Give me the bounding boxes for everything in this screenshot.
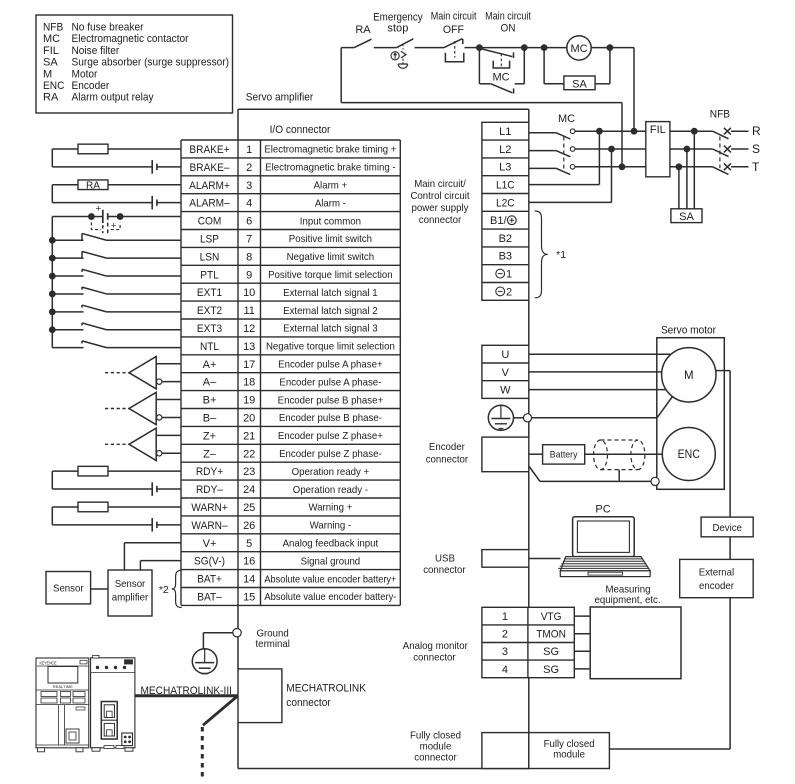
svg-text:Encoder pulse B phase-: Encoder pulse B phase- [279, 412, 383, 424]
svg-text:V+: V+ [203, 538, 217, 550]
svg-text:B–: B– [203, 412, 217, 424]
svg-text:External: External [699, 566, 734, 578]
wire L1C [529, 131, 600, 184]
pin row Z+ 21 [203, 430, 383, 442]
svg-text:+: + [96, 204, 102, 215]
svg-text:Absolute value encoder battery: Absolute value encoder battery+ [264, 573, 396, 585]
svg-text:Main circuit/: Main circuit/ [414, 178, 466, 190]
node bus EXT1 [49, 291, 56, 298]
svg-text:MC: MC [570, 43, 587, 55]
svg-text:connector: connector [426, 453, 469, 465]
svg-text:ALARM–: ALARM– [189, 198, 230, 210]
breaker NFB pole T [713, 160, 760, 175]
svg-text:WARN+: WARN+ [191, 502, 228, 514]
wire MC coil to node 4 [591, 47, 610, 49]
mechanical link MC contacts [563, 137, 565, 172]
terminal -2 label [496, 286, 512, 298]
wire RA to emergency stop [374, 47, 397, 49]
diode RA (alarm output) [152, 196, 181, 210]
svg-text:Electromagnetic brake timing +: Electromagnetic brake timing + [264, 144, 396, 156]
USB connector box [482, 550, 529, 568]
svg-text:LSN: LSN [200, 251, 220, 263]
svg-text:Encoder pulse Z phase-: Encoder pulse Z phase- [279, 448, 382, 460]
wire BRAKE return [52, 149, 151, 167]
pin row V+ 5 [203, 537, 379, 549]
svg-text:V: V [502, 367, 510, 379]
relay coil BRAKE [52, 144, 181, 154]
svg-text:1: 1 [506, 269, 512, 281]
device box [701, 517, 753, 537]
relay coil RA (alarm output) [52, 180, 181, 191]
wire SG(V-) [140, 561, 181, 570]
svg-text:Control circuit: Control circuit [410, 190, 469, 202]
svg-text:SA: SA [679, 211, 694, 223]
node bus EXT2 [49, 308, 56, 315]
sensor box [46, 572, 91, 604]
svg-text:ALARM+: ALARM+ [189, 180, 230, 192]
svg-text:L3: L3 [499, 162, 511, 174]
svg-text:No fuse breaker: No fuse breaker [72, 22, 144, 34]
svg-text:connector: connector [423, 564, 466, 576]
node COM right [117, 213, 124, 220]
wire SA drops [679, 131, 694, 209]
svg-text:*1: *1 [556, 249, 566, 261]
svg-text:3: 3 [502, 646, 508, 658]
svg-text:23: 23 [243, 466, 255, 478]
svg-text:B3: B3 [499, 251, 512, 263]
svg-text:Encoder pulse B phase+: Encoder pulse B phase+ [278, 394, 384, 406]
encoder connector box [482, 437, 529, 472]
svg-text:4: 4 [246, 198, 252, 210]
svg-text:ON: ON [501, 23, 516, 35]
encoder ENC [662, 428, 715, 481]
pushbutton Main circuit ON [479, 11, 530, 69]
terminal -1 label [496, 269, 512, 281]
pin row BRAKE– 2 [190, 162, 397, 174]
relay coil WARN [52, 502, 181, 512]
svg-text:Warning -: Warning - [310, 520, 352, 532]
pin row EXT2 11 [197, 305, 378, 317]
svg-text:Operation ready +: Operation ready + [292, 466, 370, 478]
node SA tap R [691, 128, 698, 135]
svg-text:MECHATROLINK: MECHATROLINK [286, 683, 366, 695]
wire phase U [529, 353, 671, 355]
svg-text:24: 24 [243, 484, 255, 496]
svg-text:External latch signal 1: External latch signal 1 [283, 287, 378, 299]
mechanical link NFB [719, 137, 721, 169]
node SA tap T [676, 163, 683, 170]
svg-text:Main circuit: Main circuit [431, 11, 477, 23]
svg-text:KEYENCE: KEYENCE [40, 660, 57, 665]
svg-text:EXT3: EXT3 [197, 323, 222, 335]
pushbutton Main circuit OFF [431, 11, 477, 62]
svg-text:SG: SG [543, 646, 559, 658]
line driver A phase [105, 357, 181, 389]
wire device to external encoder [729, 537, 731, 560]
switch LSN [52, 251, 181, 258]
svg-text:SG: SG [543, 664, 559, 676]
svg-text:5: 5 [246, 538, 252, 550]
shield ground terminal [651, 477, 659, 485]
svg-text:4: 4 [502, 664, 508, 676]
svg-text:External latch signal 2: External latch signal 2 [283, 305, 378, 317]
pin row B+ 19 [203, 394, 384, 406]
svg-text:External latch signal 3: External latch signal 3 [283, 323, 378, 335]
svg-text:BRAKE–: BRAKE– [190, 162, 231, 174]
svg-text:Electromagnetic brake timing -: Electromagnetic brake timing - [265, 162, 396, 174]
svg-text:M: M [43, 68, 52, 80]
node L2C tap [608, 146, 615, 153]
node control 1 [476, 44, 483, 51]
sensor amplifier box [108, 570, 152, 616]
svg-text:22: 22 [243, 448, 255, 460]
fully closed module connector box [482, 733, 529, 769]
svg-text:terminal: terminal [256, 638, 290, 650]
svg-text:14: 14 [243, 574, 255, 586]
svg-text:7: 7 [246, 233, 252, 245]
svg-text:Analog feedback input: Analog feedback input [283, 537, 379, 549]
svg-text:OFF: OFF [443, 24, 464, 36]
svg-text:L1C: L1C [496, 180, 515, 192]
svg-text:Input common: Input common [300, 215, 361, 227]
svg-text:REALTIME: REALTIME [53, 685, 74, 689]
wire sensor to amplifier [91, 588, 108, 590]
MECHATROLINK-III cable [135, 694, 238, 697]
wire encoder connector to battery [529, 453, 543, 455]
svg-text:encoder: encoder [699, 580, 734, 592]
MECHATROLINK cable continuation (dashed) [201, 727, 204, 780]
breaker NFB pole S [713, 142, 760, 157]
svg-text:SA: SA [572, 78, 587, 90]
wire input common bus [51, 217, 53, 348]
I/O connector pin table grid [181, 140, 400, 605]
svg-text:MC: MC [558, 113, 575, 125]
PC laptop icon [558, 517, 650, 577]
svg-text:8: 8 [246, 251, 252, 263]
svg-text:NTL: NTL [200, 341, 219, 353]
wire control to L1 phase [610, 48, 634, 132]
wire USB to PC [529, 558, 561, 560]
svg-text:Noise filter: Noise filter [72, 45, 120, 57]
svg-text:Sensor: Sensor [115, 578, 146, 590]
wire PE link [514, 417, 524, 419]
fully closed module box [529, 733, 610, 769]
svg-text:USB: USB [435, 552, 455, 564]
svg-text:17: 17 [243, 359, 255, 371]
pin row RDY– 24 [196, 484, 368, 496]
svg-text:FIL: FIL [43, 45, 59, 57]
svg-text:module: module [420, 741, 452, 753]
svg-text:A+: A+ [203, 359, 217, 371]
svg-text:Encoder: Encoder [72, 80, 110, 92]
svg-text:RDY–: RDY– [196, 484, 224, 496]
switch LSP [52, 233, 181, 240]
wire RA (alarm output) return [52, 185, 151, 203]
terminal B1/+ label [490, 215, 516, 227]
pin row A– 18 [203, 376, 382, 388]
svg-text:15: 15 [243, 591, 255, 603]
contactor main contact L3 [529, 165, 646, 175]
svg-text:Servo amplifier: Servo amplifier [246, 92, 314, 104]
svg-text:NFB: NFB [43, 22, 63, 34]
label main circuit connector [410, 178, 469, 226]
diode BRAKE [152, 160, 181, 174]
wire FIL to NFB S [670, 148, 713, 150]
svg-text:BAT+: BAT+ [197, 574, 222, 586]
svg-text:VTG: VTG [541, 611, 562, 623]
label Encoder connector [426, 441, 469, 465]
analog monitor connector table [482, 607, 574, 677]
svg-text:MC: MC [492, 72, 509, 84]
contactor coil MC [567, 36, 591, 60]
svg-text:equipment, etc.: equipment, etc. [594, 594, 660, 606]
wire FIL to NFB T [670, 166, 713, 168]
svg-text:Encoder: Encoder [429, 441, 465, 453]
wire COM [52, 216, 181, 218]
svg-text:Alarm +: Alarm + [314, 179, 348, 191]
svg-text:ENC: ENC [678, 449, 700, 461]
pin row ALARM+ 3 [189, 179, 347, 191]
svg-text:Encoder pulse Z phase+: Encoder pulse Z phase+ [278, 430, 383, 442]
svg-text:amplifier: amplifier [112, 592, 149, 604]
svg-text:FIL: FIL [650, 124, 666, 136]
svg-text:16: 16 [243, 556, 255, 568]
diode WARN [152, 518, 181, 532]
svg-text:Alarm output relay: Alarm output relay [72, 92, 155, 104]
MECHATROLINK connector box [238, 669, 282, 723]
svg-text:connector: connector [414, 752, 457, 764]
svg-text:Operation ready -: Operation ready - [293, 484, 369, 496]
contactor main contact L2 [529, 147, 646, 157]
pin row PTL 9 [200, 269, 393, 281]
switch EXT3 [52, 323, 181, 330]
svg-text:25: 25 [243, 502, 255, 514]
wire emergency stop to OFF [415, 47, 445, 49]
wire ground [203, 633, 232, 649]
svg-text:Sensor: Sensor [53, 582, 84, 594]
svg-text:stop: stop [387, 23, 408, 35]
wire motor ground [532, 397, 673, 418]
wire L2C [529, 149, 612, 202]
svg-text:9: 9 [246, 269, 252, 281]
switch EXT1 [52, 287, 181, 294]
pin row Z– 22 [203, 448, 382, 460]
svg-text:1: 1 [502, 611, 508, 623]
motor M [662, 348, 716, 402]
measuring equipment box [590, 607, 681, 679]
main circuit power connector block [482, 122, 529, 300]
switch PTL [52, 269, 181, 276]
svg-text:RA: RA [43, 92, 59, 104]
contactor main contact L1 [529, 129, 646, 139]
wire battery to ENC [585, 453, 663, 455]
wire WARN return [52, 507, 151, 525]
svg-text:6: 6 [246, 216, 252, 228]
servo motor frame [657, 338, 725, 490]
svg-text:Motor: Motor [72, 68, 98, 80]
svg-text:W: W [500, 385, 511, 397]
svg-text:10: 10 [243, 287, 255, 299]
svg-text:Z–: Z– [203, 448, 217, 460]
wire FIL to NFB R [670, 130, 713, 132]
svg-text:Surge absorber (surge suppress: Surge absorber (surge suppressor) [72, 57, 230, 69]
wire external encoder to fully closed module [609, 598, 730, 749]
wire control circuit left [341, 48, 622, 167]
svg-text:EXT1: EXT1 [197, 287, 222, 299]
svg-text:19: 19 [243, 395, 255, 407]
svg-text:18: 18 [243, 377, 255, 389]
svg-text:2: 2 [502, 629, 508, 641]
wire analog monitor 4 [574, 668, 590, 670]
node control 3 [541, 44, 548, 51]
brace *2 battery rows [159, 570, 182, 607]
svg-text:2: 2 [506, 286, 512, 298]
svg-text:RDY+: RDY+ [196, 466, 223, 478]
pin row LSP 7 [200, 233, 372, 245]
svg-text:RA: RA [86, 180, 100, 191]
svg-text:Electromagnetic contactor: Electromagnetic contactor [72, 33, 189, 45]
svg-text:Warning +: Warning + [308, 502, 352, 514]
ground terminal motor [523, 414, 531, 422]
svg-text:SA: SA [43, 57, 58, 69]
pin row RDY+ 23 [196, 466, 369, 478]
label fully closed module connector [410, 729, 461, 763]
motor power connector U V W [482, 345, 529, 398]
svg-text:SG(V-): SG(V-) [194, 556, 225, 568]
svg-text:PTL: PTL [200, 269, 219, 281]
pin row WARN– 26 [191, 520, 351, 532]
svg-text:WARN–: WARN– [191, 520, 228, 532]
svg-text:Positive limit switch: Positive limit switch [289, 233, 372, 245]
wire analog monitor 1 [574, 615, 590, 617]
wire motor to device [716, 370, 731, 372]
svg-text:B+: B+ [203, 395, 217, 407]
brace *1 regen terminals [535, 211, 566, 298]
svg-text:21: 21 [243, 430, 255, 442]
node L1C tap [596, 128, 603, 135]
svg-text:I/O connector: I/O connector [270, 124, 331, 136]
svg-text:Negative torque limit selectio: Negative torque limit selection [266, 341, 395, 353]
pin row B– 20 [203, 412, 383, 424]
pin row SG(V-) 16 [194, 555, 360, 567]
wire analog monitor 3 [574, 650, 590, 652]
svg-text:12: 12 [243, 323, 255, 335]
pin row COM 6 [198, 215, 361, 227]
svg-text:M: M [684, 370, 694, 382]
wire phase W [529, 389, 666, 391]
svg-text:R: R [752, 124, 761, 138]
svg-text:PC: PC [595, 503, 610, 515]
svg-text:Analog monitor: Analog monitor [403, 640, 468, 652]
svg-text:B1/: B1/ [490, 215, 507, 227]
label ground terminal [256, 627, 290, 650]
svg-text:L2: L2 [499, 144, 511, 156]
svg-text:BRAKE+: BRAKE+ [189, 144, 229, 156]
wire phase V [529, 371, 662, 373]
node control 4 [607, 44, 614, 51]
svg-text:Servo motor: Servo motor [661, 325, 716, 337]
line driver B phase [105, 392, 181, 424]
svg-text:Alarm -: Alarm - [315, 197, 347, 209]
wire analog monitor 2 [574, 633, 590, 635]
svg-text:RA: RA [355, 24, 371, 36]
label MECHATROLINK connector [286, 683, 366, 710]
svg-text:L1: L1 [499, 126, 511, 138]
svg-text:20: 20 [243, 412, 255, 424]
svg-text:connector: connector [419, 214, 462, 226]
relay coil RDY [52, 466, 181, 476]
svg-text:Positive torque limit selectio: Positive torque limit selection [268, 269, 393, 281]
shielded cable [594, 440, 645, 470]
svg-text:A–: A– [203, 377, 217, 389]
svg-text:MC: MC [43, 33, 60, 45]
svg-text:EXT2: EXT2 [197, 305, 222, 317]
line driver Z phase [105, 428, 181, 460]
node COM left [88, 213, 95, 220]
legend box [36, 15, 233, 113]
wire ON to MC coil [524, 47, 567, 49]
servo amplifier outline [238, 109, 529, 768]
node bus PTL [49, 273, 56, 280]
node control feed R [631, 128, 638, 135]
svg-text:connector: connector [286, 697, 331, 709]
svg-text:ENC: ENC [43, 80, 64, 92]
auxiliary contact MC [479, 48, 524, 94]
earth ground symbol [192, 649, 217, 674]
svg-text:U: U [501, 349, 509, 361]
pin row BAT– 15 [197, 591, 397, 603]
surge absorber SA (coil) [544, 48, 610, 91]
noise filter FIL [646, 122, 670, 177]
pin row BAT+ 14 [197, 573, 396, 585]
pin row NTL 13 [200, 341, 395, 353]
emergency stop switch [373, 12, 423, 69]
svg-text:1: 1 [246, 144, 252, 156]
pin row EXT1 10 [197, 287, 378, 299]
node bus LSN [49, 255, 56, 262]
svg-text:Signal ground: Signal ground [301, 555, 361, 567]
wire RDY return [52, 471, 151, 489]
relay contact RA [341, 24, 371, 48]
svg-text:B2: B2 [499, 233, 512, 245]
battery box [543, 445, 585, 464]
MECHATROLINK branch cable [203, 696, 238, 725]
wire shield ground [529, 466, 651, 481]
svg-text:Encoder pulse A phase-: Encoder pulse A phase- [279, 376, 381, 388]
svg-text:S: S [752, 142, 760, 156]
label USB connector [423, 552, 466, 576]
svg-text:Absolute value encoder battery: Absolute value encoder battery- [264, 591, 396, 603]
breaker NFB pole R [713, 124, 761, 139]
surge absorber SA (mains) [671, 209, 702, 223]
svg-text:Device: Device [712, 522, 742, 534]
svg-text:power supply: power supply [412, 202, 470, 214]
label analog monitor connector [403, 640, 468, 664]
ground terminal [233, 629, 241, 637]
battery B2 optional (dashed) [91, 221, 120, 236]
node control feed T [619, 163, 626, 170]
svg-text:T: T [752, 160, 760, 174]
svg-text:Encoder pulse A phase+: Encoder pulse A phase+ [278, 358, 383, 370]
wire device link [729, 371, 731, 517]
svg-text:L2C: L2C [496, 197, 515, 209]
node control 2 [521, 44, 528, 51]
svg-text:Main circuit: Main circuit [485, 11, 531, 23]
switch EXT2 [52, 305, 181, 312]
svg-text:3: 3 [246, 180, 252, 192]
PLC controller unit [36, 655, 135, 751]
svg-text:13: 13 [243, 341, 255, 353]
